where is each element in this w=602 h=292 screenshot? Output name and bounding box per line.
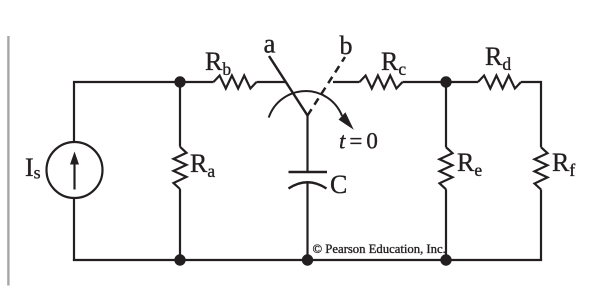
svg-text:Rb: Rb — [205, 47, 231, 79]
svg-text:C: C — [330, 170, 347, 199]
wire: Re top lead — [445, 82, 447, 147]
svg-text:a: a — [264, 29, 276, 59]
wire: Ra bottom lead — [179, 189, 181, 260]
switch motion arrowhead — [339, 112, 354, 130]
svg-text:Rc: Rc — [381, 47, 406, 79]
junction node dot capacitor bottom — [302, 254, 313, 265]
svg-text:© Pearson Education, Inc.: © Pearson Education, Inc. — [313, 242, 446, 256]
wire: switch pole to capacitor — [306, 115, 308, 173]
switch motion arrow arc — [269, 91, 342, 118]
wire: current source bottom to rail — [73, 198, 75, 261]
svg-text:Re: Re — [457, 148, 482, 180]
wire: Rd to right corner down to Rf — [521, 82, 541, 147]
resistor Rd — [478, 76, 521, 89]
svg-text:t=0: t=0 — [339, 129, 378, 154]
wire: Re bottom lead — [445, 189, 447, 260]
junction node dot Rc/Rd/Re — [440, 76, 451, 87]
svg-text:b: b — [340, 31, 353, 60]
wire: top-left from current source to Rb — [74, 82, 214, 142]
resistor Ra — [174, 147, 187, 189]
wire: switch pole b to Rc — [333, 81, 360, 83]
resistor Re — [440, 147, 453, 189]
svg-text:Is: Is — [25, 153, 41, 183]
page margin bar — [7, 36, 9, 286]
wire: Rb to switch pole a — [257, 81, 286, 83]
svg-text:Ra: Ra — [190, 149, 215, 181]
wire: capacitor bottom to rail — [306, 183, 308, 260]
junction node dot Re bottom — [440, 254, 451, 265]
wire: Rf bottom lead — [540, 190, 542, 261]
junction node dot Ra top — [174, 76, 185, 87]
resistor Rf — [535, 147, 548, 189]
junction node dot Ra bottom — [174, 254, 185, 265]
svg-text:Rf: Rf — [552, 148, 575, 180]
resistor Rc — [360, 76, 403, 89]
switch blade dashed to contact b — [308, 57, 346, 116]
resistor Rb — [214, 76, 257, 89]
svg-text:Rd: Rd — [485, 42, 511, 74]
capacitor C bottom curved plate — [289, 182, 327, 188]
wire: Rc to Rd through node — [403, 81, 479, 83]
capacitor C top plate — [289, 171, 328, 174]
switch blade solid to contact a — [269, 56, 308, 116]
current source Is — [47, 142, 103, 198]
wire: Ra top lead — [179, 82, 181, 147]
wire: bottom rail — [73, 259, 542, 261]
